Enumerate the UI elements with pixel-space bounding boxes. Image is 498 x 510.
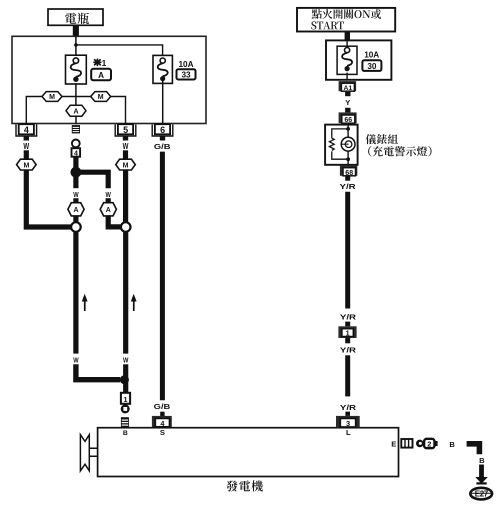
connector A diamond mid-right <box>100 203 116 216</box>
svg-text:W: W <box>106 190 112 199</box>
connector ring (2) <box>416 439 438 449</box>
wire lamp to bottom node <box>347 151 349 165</box>
wire right into bottom junction <box>123 364 128 393</box>
connector M below pin4 <box>17 159 36 170</box>
svg-text:A: A <box>98 71 104 80</box>
connector E stack <box>401 439 412 448</box>
wire col2 down to ring right <box>123 170 128 222</box>
svg-text:A: A <box>73 109 78 116</box>
node ring right <box>121 222 131 232</box>
svg-text:30: 30 <box>367 62 377 71</box>
svg-text:A1: A1 <box>344 85 353 92</box>
wire A diamond to block edge <box>75 116 77 124</box>
connector box 4 (mid) <box>72 148 81 157</box>
connector A diamond <box>66 105 86 116</box>
alternator box <box>98 428 399 477</box>
wire M branch horizontal <box>62 96 91 98</box>
label ※1 <box>94 58 107 68</box>
svg-text:Y/R: Y/R <box>340 403 357 412</box>
wire Y/R run 2 <box>345 355 350 396</box>
fuse F3 10A <box>337 40 357 79</box>
pin 5 <box>115 124 136 140</box>
svg-text:B: B <box>123 430 128 437</box>
svg-text:S: S <box>160 428 165 437</box>
ignition switch box <box>297 8 395 32</box>
svg-text:W: W <box>123 142 129 151</box>
fuse box 30 <box>326 40 391 79</box>
wire battery to fusible link <box>75 36 77 55</box>
svg-text:W: W <box>123 356 129 365</box>
wire col1 elbow to ring left <box>26 170 71 227</box>
label box 30 <box>362 60 381 71</box>
node junction dot <box>71 167 82 178</box>
wire stub below connector 1 <box>345 338 350 343</box>
label box A <box>91 69 111 81</box>
fuse F2 10A <box>153 55 172 83</box>
connector 1 inline <box>338 326 356 338</box>
connector 68 <box>340 165 357 177</box>
alternator shaft <box>89 448 97 456</box>
svg-text:1: 1 <box>102 58 107 68</box>
battery box 電瓶 <box>48 9 103 25</box>
svg-text:B: B <box>479 456 485 465</box>
wire left elbow to bottom junction <box>76 364 120 379</box>
connector M left <box>42 92 62 102</box>
svg-text:66: 66 <box>344 117 352 124</box>
wire stub above A diamond right <box>106 198 111 203</box>
svg-text:B: B <box>449 440 455 449</box>
svg-text:5: 5 <box>123 125 128 135</box>
wire fusible link to M branch <box>75 83 77 105</box>
svg-text:G/B: G/B <box>154 402 171 411</box>
resistor R <box>329 138 334 150</box>
svg-text:W: W <box>73 190 79 199</box>
wire main run left <box>73 232 78 354</box>
svg-text:Y/R: Y/R <box>340 182 357 191</box>
ground arrow <box>475 477 488 485</box>
wire junction to fuse 33 <box>76 45 163 56</box>
svg-text:1: 1 <box>346 329 350 338</box>
svg-text:M: M <box>123 163 129 170</box>
label （充電警示燈） <box>368 146 431 156</box>
fuse/junction block box <box>12 36 206 123</box>
wire stub below A1 <box>345 92 350 96</box>
wire stub above connector 3 <box>345 412 350 416</box>
wire stub pin4 to M <box>24 150 29 159</box>
arrow up left <box>82 294 88 311</box>
svg-text:W: W <box>73 356 79 365</box>
connector 4 at terminal S <box>152 416 172 428</box>
wire battery feed (thick) <box>73 25 79 36</box>
wire main run right <box>123 232 128 354</box>
pin 6 <box>152 124 173 140</box>
svg-text:4: 4 <box>74 150 78 157</box>
wire G/B main run <box>160 152 165 401</box>
wire cluster top <box>347 125 349 138</box>
wire M left to pin 4 <box>26 97 42 125</box>
svg-text:E27: E27 <box>475 490 489 499</box>
svg-text:33: 33 <box>181 71 191 80</box>
svg-text:E: E <box>391 439 396 448</box>
svg-text:A: A <box>106 207 111 214</box>
svg-text:W: W <box>23 142 29 151</box>
connector 66 <box>339 112 357 124</box>
svg-text:A: A <box>73 207 78 214</box>
connector stack (bars) below block <box>72 125 80 133</box>
svg-text:Y/R: Y/R <box>340 345 357 354</box>
connector box 1 (B lead) <box>121 393 130 404</box>
fusible link F1 <box>66 55 87 84</box>
svg-text:M: M <box>23 163 29 170</box>
wire stub below 68 <box>345 176 350 181</box>
label box 33 <box>177 69 196 79</box>
svg-text:4: 4 <box>24 125 29 135</box>
alternator pulley <box>80 435 89 471</box>
wire A mid-left to ring <box>73 216 78 222</box>
node ring left <box>71 222 81 232</box>
lamp charge warning <box>341 137 355 151</box>
node cluster top <box>346 127 350 131</box>
connector M right <box>91 92 111 102</box>
svg-text:10A: 10A <box>179 60 194 69</box>
instrument cluster box <box>325 125 358 165</box>
svg-text:6: 6 <box>160 125 165 135</box>
svg-text:68: 68 <box>345 170 353 177</box>
connector 3 at terminal L <box>336 416 360 428</box>
node battery junction <box>74 43 78 47</box>
connector A1 <box>339 81 357 92</box>
wire stub above 66 <box>345 108 350 113</box>
svg-text:M: M <box>98 94 104 101</box>
wire resistor branch <box>332 129 348 159</box>
node cluster bottom <box>346 157 350 161</box>
svg-text:Y/R: Y/R <box>340 312 357 321</box>
svg-text:3: 3 <box>346 419 350 428</box>
ground E27 <box>470 488 492 500</box>
wire M right to pin 5 <box>111 97 126 125</box>
wire ignition to fuse (thick) <box>345 32 350 41</box>
arrow up right <box>131 294 137 311</box>
connector ring <box>72 140 80 148</box>
wire branch right from junction <box>76 172 108 188</box>
wire stub to S connector <box>160 412 164 416</box>
label 發電機 <box>226 480 262 491</box>
svg-text:10A: 10A <box>364 50 379 59</box>
wire stub pin5 to M <box>123 150 128 159</box>
wire Y/R run 1 <box>345 192 350 309</box>
wire stub above A diamond left <box>73 198 78 203</box>
wire stub above connector 1 <box>345 322 350 327</box>
wire B elbow <box>467 444 480 455</box>
wire to ground <box>479 465 484 478</box>
wire fuse 33 to pin 6 <box>162 81 164 124</box>
wire A mid-right elbow to ring <box>108 216 120 227</box>
pin 4 <box>16 124 37 140</box>
terminal stack B <box>121 417 129 428</box>
wire junction down <box>73 172 78 188</box>
svg-text:L: L <box>346 428 351 437</box>
connector ring terminal (donut) <box>121 404 130 413</box>
connector A diamond mid-left <box>68 203 84 216</box>
svg-text:M: M <box>49 94 55 101</box>
svg-text:2: 2 <box>427 440 431 449</box>
connector M below pin5 <box>116 159 136 170</box>
wire stub to junction <box>73 157 78 168</box>
label 儀錶組 <box>366 134 398 144</box>
node bottom junction <box>120 375 129 384</box>
svg-text:Y: Y <box>345 98 350 107</box>
svg-text:G/B: G/B <box>154 142 171 151</box>
